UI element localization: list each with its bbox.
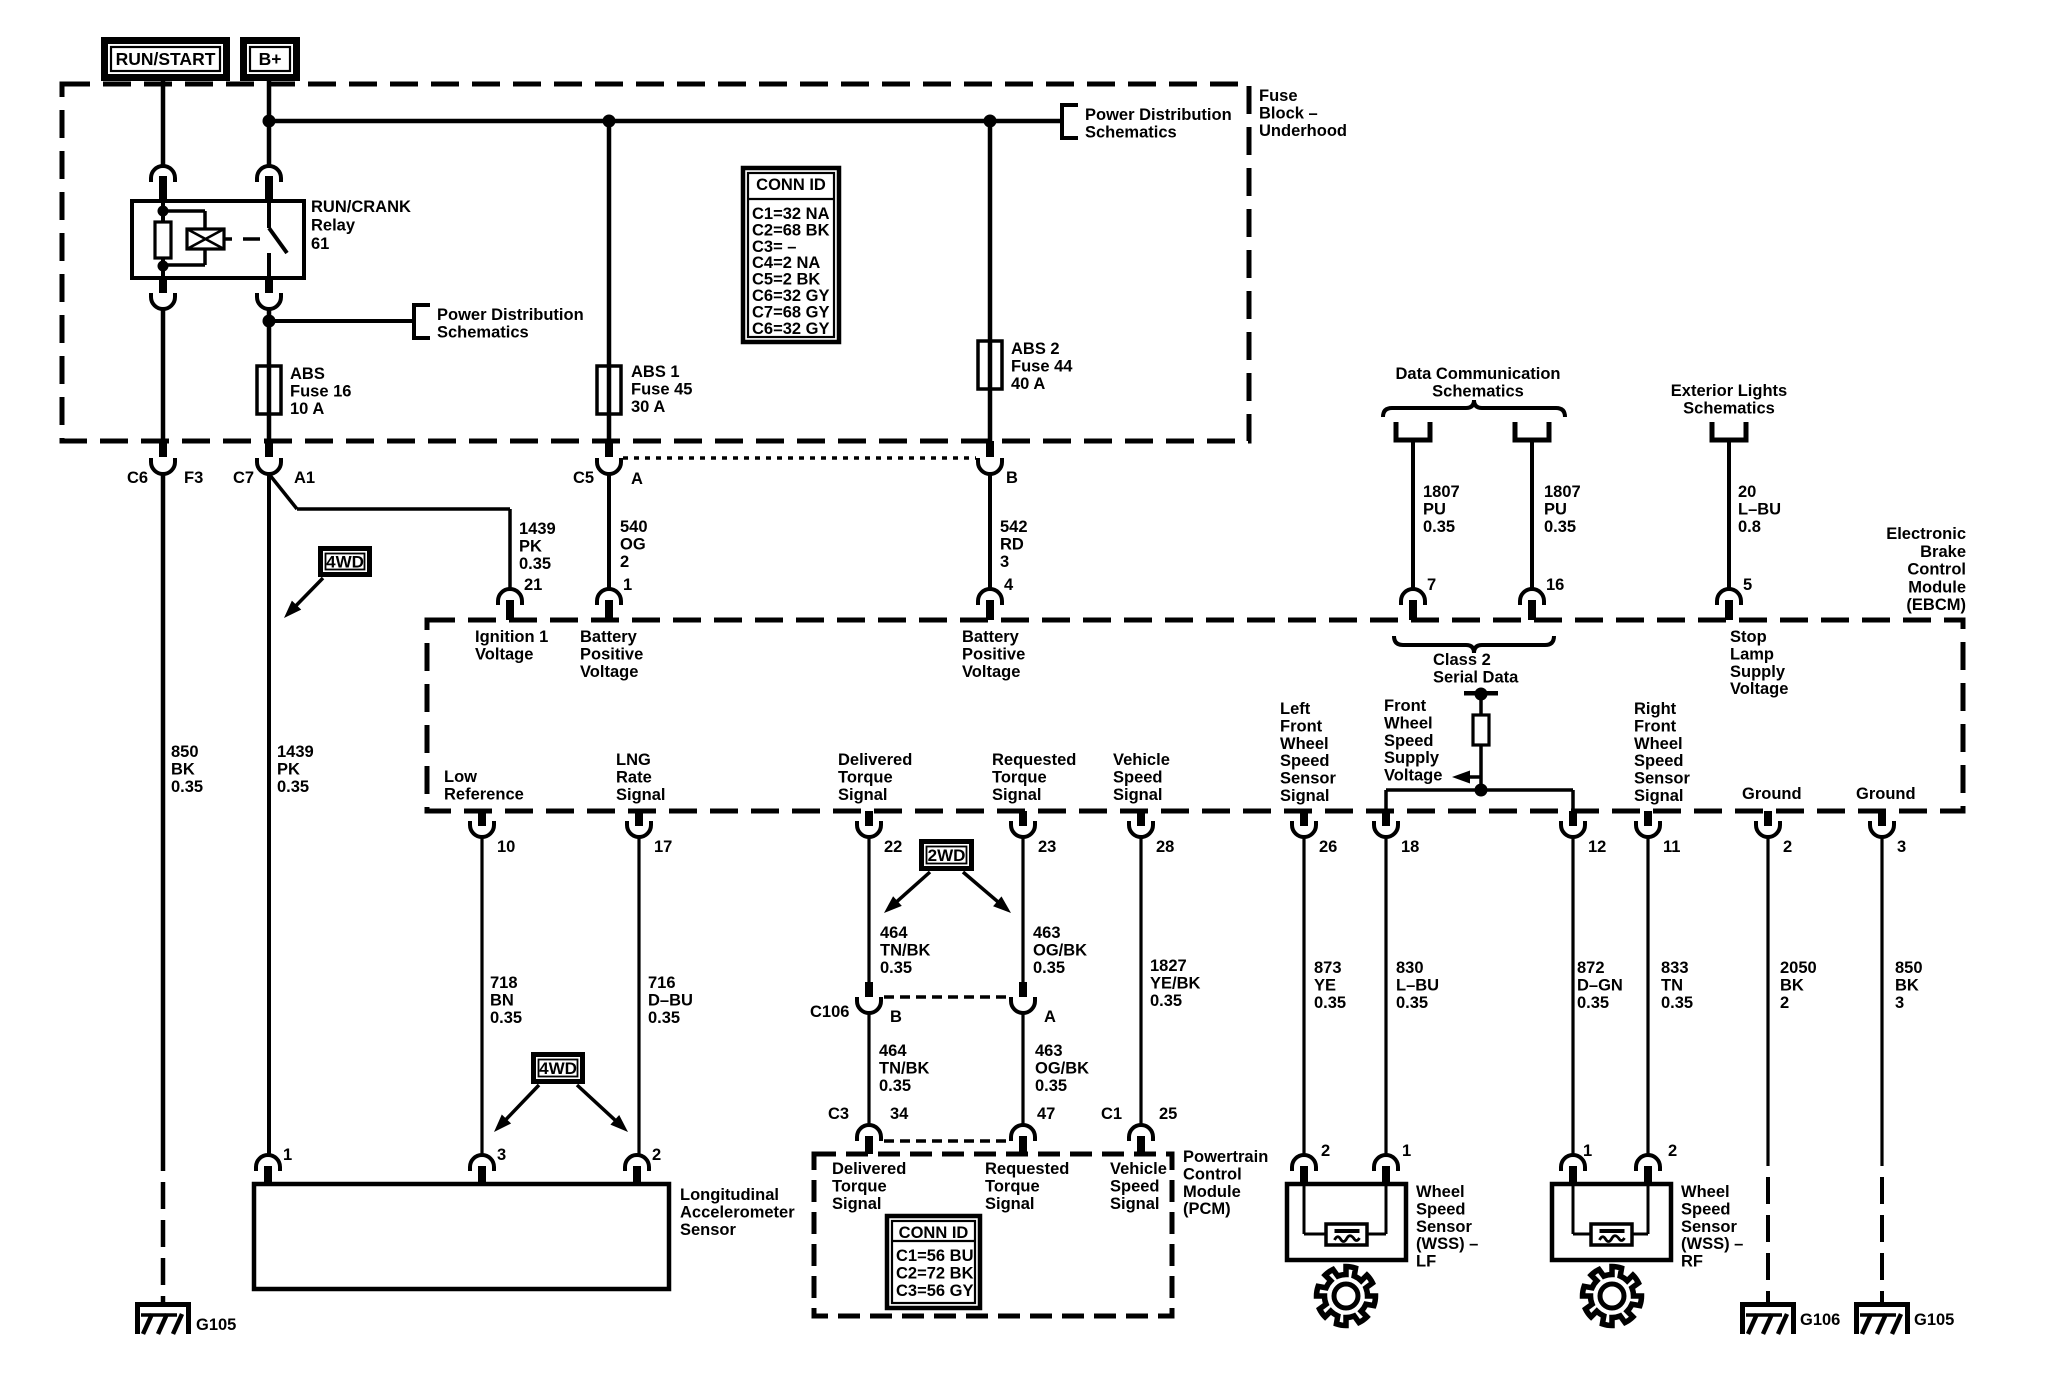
svg-text:18: 18 [1401,838,1419,856]
svg-text:830: 830 [1396,959,1424,977]
bracket to Power Distribution Schematics mid [414,305,430,338]
svg-text:BK: BK [1780,976,1804,994]
wire 850 BK to G105 [161,474,166,1171]
svg-text:17: 17 [654,838,672,856]
wire 850 BK right [1880,837,1883,1166]
supply rail to pins 18 and 12 [1386,788,1573,792]
wheel speed supply resistor [1479,694,1483,715]
svg-text:22: 22 [884,838,902,856]
svg-text:1: 1 [1402,1142,1411,1160]
svg-text:C5=2 BK: C5=2 BK [752,271,820,289]
wire 542 RD [988,474,992,590]
EBCM pin 10 [478,811,486,826]
svg-text:3: 3 [1897,838,1906,856]
EBCM pin 12 [1569,811,1577,826]
supply voltage arrow [1468,775,1481,779]
svg-text:C7=68 GY: C7=68 GY [752,303,830,321]
junction to power distribution bracket [263,315,276,328]
svg-text:C2=68 BK: C2=68 BK [752,221,830,239]
svg-text:Voltage: Voltage [1730,680,1788,698]
svg-text:Schematics: Schematics [1432,382,1524,400]
svg-text:34: 34 [890,1105,909,1123]
svg-text:B: B [1006,469,1018,487]
svg-text:CONN ID: CONN ID [756,176,826,194]
svg-text:Fuse 44: Fuse 44 [1011,357,1073,375]
svg-text:Positive: Positive [580,645,643,663]
power feed RUN/START box [105,41,227,78]
svg-text:PK: PK [277,760,300,778]
svg-text:LNG: LNG [616,751,651,769]
svg-text:(EBCM): (EBCM) [1906,596,1966,614]
svg-text:2: 2 [1780,994,1789,1012]
svg-text:A: A [1044,1008,1056,1026]
svg-text:4WD: 4WD [326,553,364,572]
svg-text:Signal: Signal [992,786,1042,804]
svg-text:OG/BK: OG/BK [1033,941,1087,959]
svg-text:3: 3 [497,1146,506,1164]
svg-text:10: 10 [497,838,515,856]
svg-text:TN: TN [1661,976,1683,994]
svg-text:C106: C106 [810,1003,849,1021]
junction ABS2 feed [984,115,997,128]
EBCM pin 5 [1717,589,1741,605]
svg-text:Underhood: Underhood [1259,122,1347,140]
svg-text:Requested: Requested [985,1160,1069,1178]
svg-text:20: 20 [1738,483,1756,501]
svg-text:Power Distribution: Power Distribution [437,306,584,324]
tone wheel gear RF [1582,1267,1641,1326]
svg-text:Requested: Requested [992,751,1076,769]
svg-text:YE: YE [1314,976,1336,994]
svg-text:Signal: Signal [985,1195,1035,1213]
EBCM pin 2 [1764,811,1772,826]
svg-text:Longitudinal: Longitudinal [680,1186,779,1204]
svg-text:RF: RF [1681,1253,1703,1271]
svg-text:0.35: 0.35 [879,1077,911,1095]
relay switch [267,201,271,228]
wire 1827 YE/BK [1139,837,1142,1126]
svg-text:0.35: 0.35 [1544,518,1576,536]
svg-text:0.35: 0.35 [171,778,203,796]
wire B+ down [267,81,272,167]
svg-text:1827: 1827 [1150,957,1187,975]
svg-text:Signal: Signal [1113,786,1163,804]
svg-text:Wheel: Wheel [1681,1183,1730,1201]
connector on RUN/START wire [151,166,175,182]
EBCM pin 26 [1300,811,1308,826]
svg-text:1807: 1807 [1423,483,1460,501]
svg-text:Wheel: Wheel [1280,735,1329,753]
svg-text:C3= –: C3= – [752,238,797,256]
svg-text:873: 873 [1314,959,1342,977]
svg-text:0.8: 0.8 [1738,518,1761,536]
svg-text:463: 463 [1033,924,1061,942]
svg-text:A: A [631,470,643,488]
dashed line C106 B-A [884,995,1009,999]
svg-text:Reference: Reference [444,785,524,803]
svg-text:C1=56 BU: C1=56 BU [896,1247,974,1265]
svg-text:Exterior Lights: Exterior Lights [1671,382,1787,400]
PCM pin 47 [1011,1125,1035,1141]
svg-text:Serial Data: Serial Data [1433,668,1519,686]
svg-text:TN/BK: TN/BK [879,1059,929,1077]
svg-text:2: 2 [652,1146,661,1164]
svg-text:LF: LF [1416,1253,1436,1271]
relay coil wire [161,201,165,222]
junction ABS1 feed [603,115,616,128]
svg-text:Control: Control [1183,1165,1242,1183]
svg-text:C1=32 NA: C1=32 NA [752,205,830,223]
svg-text:Delivered: Delivered [838,751,912,769]
svg-text:2: 2 [1668,1142,1677,1160]
wire 540 OG [607,474,611,590]
wire 716 D-BU [637,837,640,1156]
branch wire 1439 PK to pin 21 [269,474,297,509]
svg-text:Torque: Torque [838,768,893,786]
svg-text:5: 5 [1743,576,1752,594]
svg-text:C6=32 GY: C6=32 GY [752,287,830,305]
svg-text:Accelerometer: Accelerometer [680,1203,795,1221]
accelerometer pin 1 [256,1155,280,1171]
svg-text:0.35: 0.35 [1577,994,1609,1012]
accelerometer pin 2 [625,1155,649,1171]
wire relay to C6 [161,309,166,441]
svg-text:Signal: Signal [1634,787,1684,805]
svg-text:25: 25 [1159,1105,1177,1123]
svg-text:Speed: Speed [1681,1200,1731,1218]
svg-text:OG: OG [620,535,646,553]
junction B+ bus [263,115,276,128]
svg-text:Wheel: Wheel [1634,735,1683,753]
EBCM pin 22 [865,811,873,826]
svg-text:Vehicle: Vehicle [1113,751,1170,769]
svg-text:Module: Module [1908,578,1966,596]
ABS Fuse 16 10A [257,366,281,414]
svg-text:1: 1 [1583,1142,1592,1160]
connector on B+ wire [257,166,281,182]
svg-text:G105: G105 [1914,1311,1954,1329]
PCM dashed box [814,1154,1172,1316]
tone wheel gear LF [1316,1267,1375,1326]
wire relay to ABS fuse [267,309,272,441]
svg-text:C5: C5 [573,469,594,487]
svg-text:463: 463 [1035,1042,1063,1060]
EBCM pin 4 [978,589,1002,605]
svg-text:(WSS) –: (WSS) – [1681,1235,1743,1253]
bracket to Power Distribution Schematics top [1062,105,1078,138]
svg-text:Voltage: Voltage [580,663,638,681]
connector C5/A [605,441,613,457]
svg-text:C3: C3 [828,1105,849,1123]
svg-text:L–BU: L–BU [1738,500,1781,518]
wheel speed sensor RF [1561,1155,1585,1171]
svg-text:4WD: 4WD [539,1059,577,1078]
svg-text:7: 7 [1427,576,1436,594]
svg-text:0.35: 0.35 [277,778,309,796]
svg-text:3: 3 [1895,994,1904,1012]
svg-text:12: 12 [1588,838,1606,856]
svg-text:16: 16 [1546,576,1564,594]
svg-text:Fuse 16: Fuse 16 [290,382,351,400]
svg-text:G105: G105 [196,1316,236,1334]
svg-text:0.35: 0.35 [648,1009,680,1027]
svg-text:(WSS) –: (WSS) – [1416,1235,1478,1253]
svg-text:Module: Module [1183,1183,1241,1201]
relay linkage dashes [224,237,232,241]
svg-text:Signal: Signal [616,786,666,804]
svg-text:Supply: Supply [1730,663,1786,681]
svg-text:F3: F3 [184,469,203,487]
wire 464 TN/BK upper [867,837,870,982]
wire 1807 PU left [1411,440,1415,590]
svg-text:10 A: 10 A [290,400,324,418]
svg-text:Battery: Battery [580,628,638,646]
svg-text:Right: Right [1634,700,1677,718]
svg-text:B+: B+ [259,49,282,69]
EBCM pin 11 [1644,811,1652,826]
svg-text:Block –: Block – [1259,104,1318,122]
svg-text:PU: PU [1423,500,1446,518]
svg-text:0.35: 0.35 [490,1009,522,1027]
svg-text:Left: Left [1280,700,1311,718]
svg-text:C2=72 BK: C2=72 BK [896,1265,974,1283]
svg-text:1439: 1439 [277,743,314,761]
svg-text:(PCM): (PCM) [1183,1200,1231,1218]
svg-text:C6=32 GY: C6=32 GY [752,320,830,338]
svg-text:A1: A1 [294,469,315,487]
brace Class 2 Serial Data [1394,636,1554,653]
svg-text:Signal: Signal [838,786,888,804]
svg-text:Torque: Torque [992,768,1047,786]
connector B of C5 [986,441,994,457]
svg-text:RUN/CRANK: RUN/CRANK [311,198,411,216]
svg-text:542: 542 [1000,518,1028,536]
wire 833 TN [1646,837,1649,1156]
wire 2050 BK [1766,837,1769,1166]
svg-text:0.35: 0.35 [1033,959,1065,977]
svg-text:BK: BK [171,760,195,778]
svg-text:RD: RD [1000,535,1024,553]
svg-text:0.35: 0.35 [1661,994,1693,1012]
svg-text:Low: Low [444,768,477,786]
svg-text:Relay: Relay [311,217,356,235]
svg-text:716: 716 [648,974,676,992]
connector C6/F3 [159,441,167,457]
EBCM pin 18 [1382,811,1390,826]
svg-text:Front: Front [1384,697,1427,715]
svg-text:Lamp: Lamp [1730,645,1774,663]
svg-text:850: 850 [1895,959,1923,977]
svg-text:28: 28 [1156,838,1174,856]
svg-text:0.35: 0.35 [880,959,912,977]
EBCM dashed box [427,620,1963,811]
svg-text:C1: C1 [1101,1105,1122,1123]
svg-text:Powertrain: Powertrain [1183,1148,1268,1166]
brace over data terminals [1383,400,1565,417]
svg-text:Wheel: Wheel [1416,1183,1465,1201]
ground G105 right [1854,1302,1910,1307]
svg-text:PU: PU [1544,500,1567,518]
svg-text:CONN ID: CONN ID [899,1224,969,1242]
svg-text:Torque: Torque [832,1177,887,1195]
svg-text:YE/BK: YE/BK [1150,974,1201,992]
svg-text:0.35: 0.35 [1150,992,1182,1010]
svg-text:0.35: 0.35 [1423,518,1455,536]
svg-text:833: 833 [1661,959,1689,977]
EBCM pin 1 [597,589,621,605]
svg-text:Supply: Supply [1384,749,1440,767]
svg-text:Fuse 45: Fuse 45 [631,380,692,398]
svg-text:Voltage: Voltage [475,645,533,663]
connector C106 B [865,982,873,997]
connector C106 A [1019,982,1027,997]
svg-text:540: 540 [620,518,648,536]
svg-text:PK: PK [519,537,542,555]
svg-text:Front: Front [1634,717,1677,735]
svg-text:Front: Front [1280,717,1323,735]
wire RUN/START to relay [161,81,166,167]
wire 464 TN/BK lower [867,1013,870,1126]
svg-text:Class 2: Class 2 [1433,651,1491,669]
svg-text:0.35: 0.35 [519,555,551,573]
svg-text:Speed: Speed [1280,752,1330,770]
svg-text:D–GN: D–GN [1577,976,1623,994]
EBCM pin 28 [1137,811,1145,826]
svg-text:Power Distribution: Power Distribution [1085,106,1232,124]
2WD tag [922,842,972,869]
svg-text:Rate: Rate [616,768,652,786]
svg-text:Vehicle: Vehicle [1110,1160,1167,1178]
svg-text:BN: BN [490,991,514,1009]
svg-text:2050: 2050 [1780,959,1817,977]
wire 1807 PU right [1530,440,1534,590]
svg-text:Signal: Signal [1280,787,1330,805]
svg-text:1807: 1807 [1544,483,1581,501]
connector below relay left [159,278,167,293]
terminal exterior lights [1712,422,1746,440]
ABS 2 Fuse 44 40A [988,121,993,441]
wheel speed sensor LF [1292,1155,1316,1171]
svg-text:Stop: Stop [1730,628,1767,646]
svg-text:C6: C6 [127,469,148,487]
wire 718 BN [480,837,483,1156]
EBCM pin 21 [498,589,522,605]
wire 872 D-GN [1571,837,1574,1156]
svg-text:TN/BK: TN/BK [880,941,930,959]
svg-text:464: 464 [879,1042,907,1060]
svg-text:2: 2 [1783,838,1792,856]
ground G105 left [135,1302,191,1307]
svg-text:Speed: Speed [1113,768,1163,786]
svg-text:464: 464 [880,924,908,942]
svg-text:872: 872 [1577,959,1605,977]
svg-text:ABS 2: ABS 2 [1011,340,1060,358]
svg-text:C4=2 NA: C4=2 NA [752,254,820,272]
svg-text:OG/BK: OG/BK [1035,1059,1089,1077]
svg-text:Sensor: Sensor [1681,1218,1738,1236]
power feed B+ box [244,41,297,78]
svg-text:Ground: Ground [1856,785,1916,803]
wire 463 OG/BK lower [1021,1013,1024,1126]
svg-text:26: 26 [1319,838,1337,856]
svg-text:Delivered: Delivered [832,1160,906,1178]
wire 1439 PK to accelerometer [267,474,271,1156]
svg-text:B: B [890,1008,902,1026]
svg-text:0.35: 0.35 [1035,1077,1067,1095]
ABS 1 Fuse 45 30A [607,121,612,441]
svg-text:Ignition 1: Ignition 1 [475,628,548,646]
PCM CONN ID table [887,1216,980,1308]
longitudinal accelerometer sensor box [254,1184,669,1289]
connector C7/A1 [265,441,273,457]
svg-text:0.35: 0.35 [1314,994,1346,1012]
svg-text:Speed: Speed [1416,1200,1466,1218]
svg-text:47: 47 [1037,1105,1055,1123]
svg-text:BK: BK [1895,976,1919,994]
terminal data 2 [1515,422,1549,440]
svg-text:Sensor: Sensor [1416,1218,1473,1236]
svg-text:Torque: Torque [985,1177,1040,1195]
svg-text:Schematics: Schematics [1085,123,1177,141]
RUN/CRANK relay 61 box [132,201,304,278]
4WD tag lower [534,1055,583,1082]
Fuse Block - Underhood dashed box [62,84,1249,441]
svg-text:Electronic: Electronic [1886,525,1966,543]
svg-text:21: 21 [524,576,542,594]
wire 830 L-BU [1384,837,1387,1156]
svg-text:G106: G106 [1800,1311,1840,1329]
EBCM pin 16 [1520,589,1544,605]
svg-text:Ground: Ground [1742,785,1802,803]
wire 20 L-BU [1727,440,1731,590]
svg-text:Voltage: Voltage [1384,767,1442,785]
4WD arrow upper [295,578,323,607]
svg-text:718: 718 [490,974,518,992]
svg-text:Sensor: Sensor [1634,770,1691,788]
svg-text:ABS: ABS [290,365,325,383]
svg-text:ABS 1: ABS 1 [631,363,680,381]
accelerometer pin 3 [470,1155,494,1171]
svg-text:Speed: Speed [1384,732,1434,750]
relay coil loop [163,209,205,213]
dotted connector line A-B [623,456,976,460]
svg-text:Positive: Positive [962,645,1025,663]
svg-text:RUN/START: RUN/START [116,49,216,69]
svg-text:850: 850 [171,743,199,761]
top CONN ID table [743,168,839,342]
svg-text:1439: 1439 [519,520,556,538]
svg-text:Speed: Speed [1110,1177,1160,1195]
wire 463 OG/BK upper [1021,837,1024,982]
svg-text:Fuse: Fuse [1259,87,1298,105]
EBCM pin 3 [1878,811,1886,826]
svg-text:Signal: Signal [832,1195,882,1213]
svg-text:2: 2 [1321,1142,1330,1160]
svg-text:1: 1 [623,576,632,594]
EBCM pin 7 [1401,589,1425,605]
svg-text:2: 2 [620,553,629,571]
svg-text:L–BU: L–BU [1396,976,1439,994]
svg-text:Voltage: Voltage [962,663,1020,681]
relay solenoid X box [187,229,224,249]
svg-text:Battery: Battery [962,628,1020,646]
svg-text:Speed: Speed [1634,752,1684,770]
svg-text:Schematics: Schematics [1683,399,1775,417]
ground G106 right [1740,1302,1796,1307]
4WD tag upper [321,549,370,575]
svg-text:0.35: 0.35 [1396,994,1428,1012]
dashed line 34-47 [884,1139,1009,1143]
